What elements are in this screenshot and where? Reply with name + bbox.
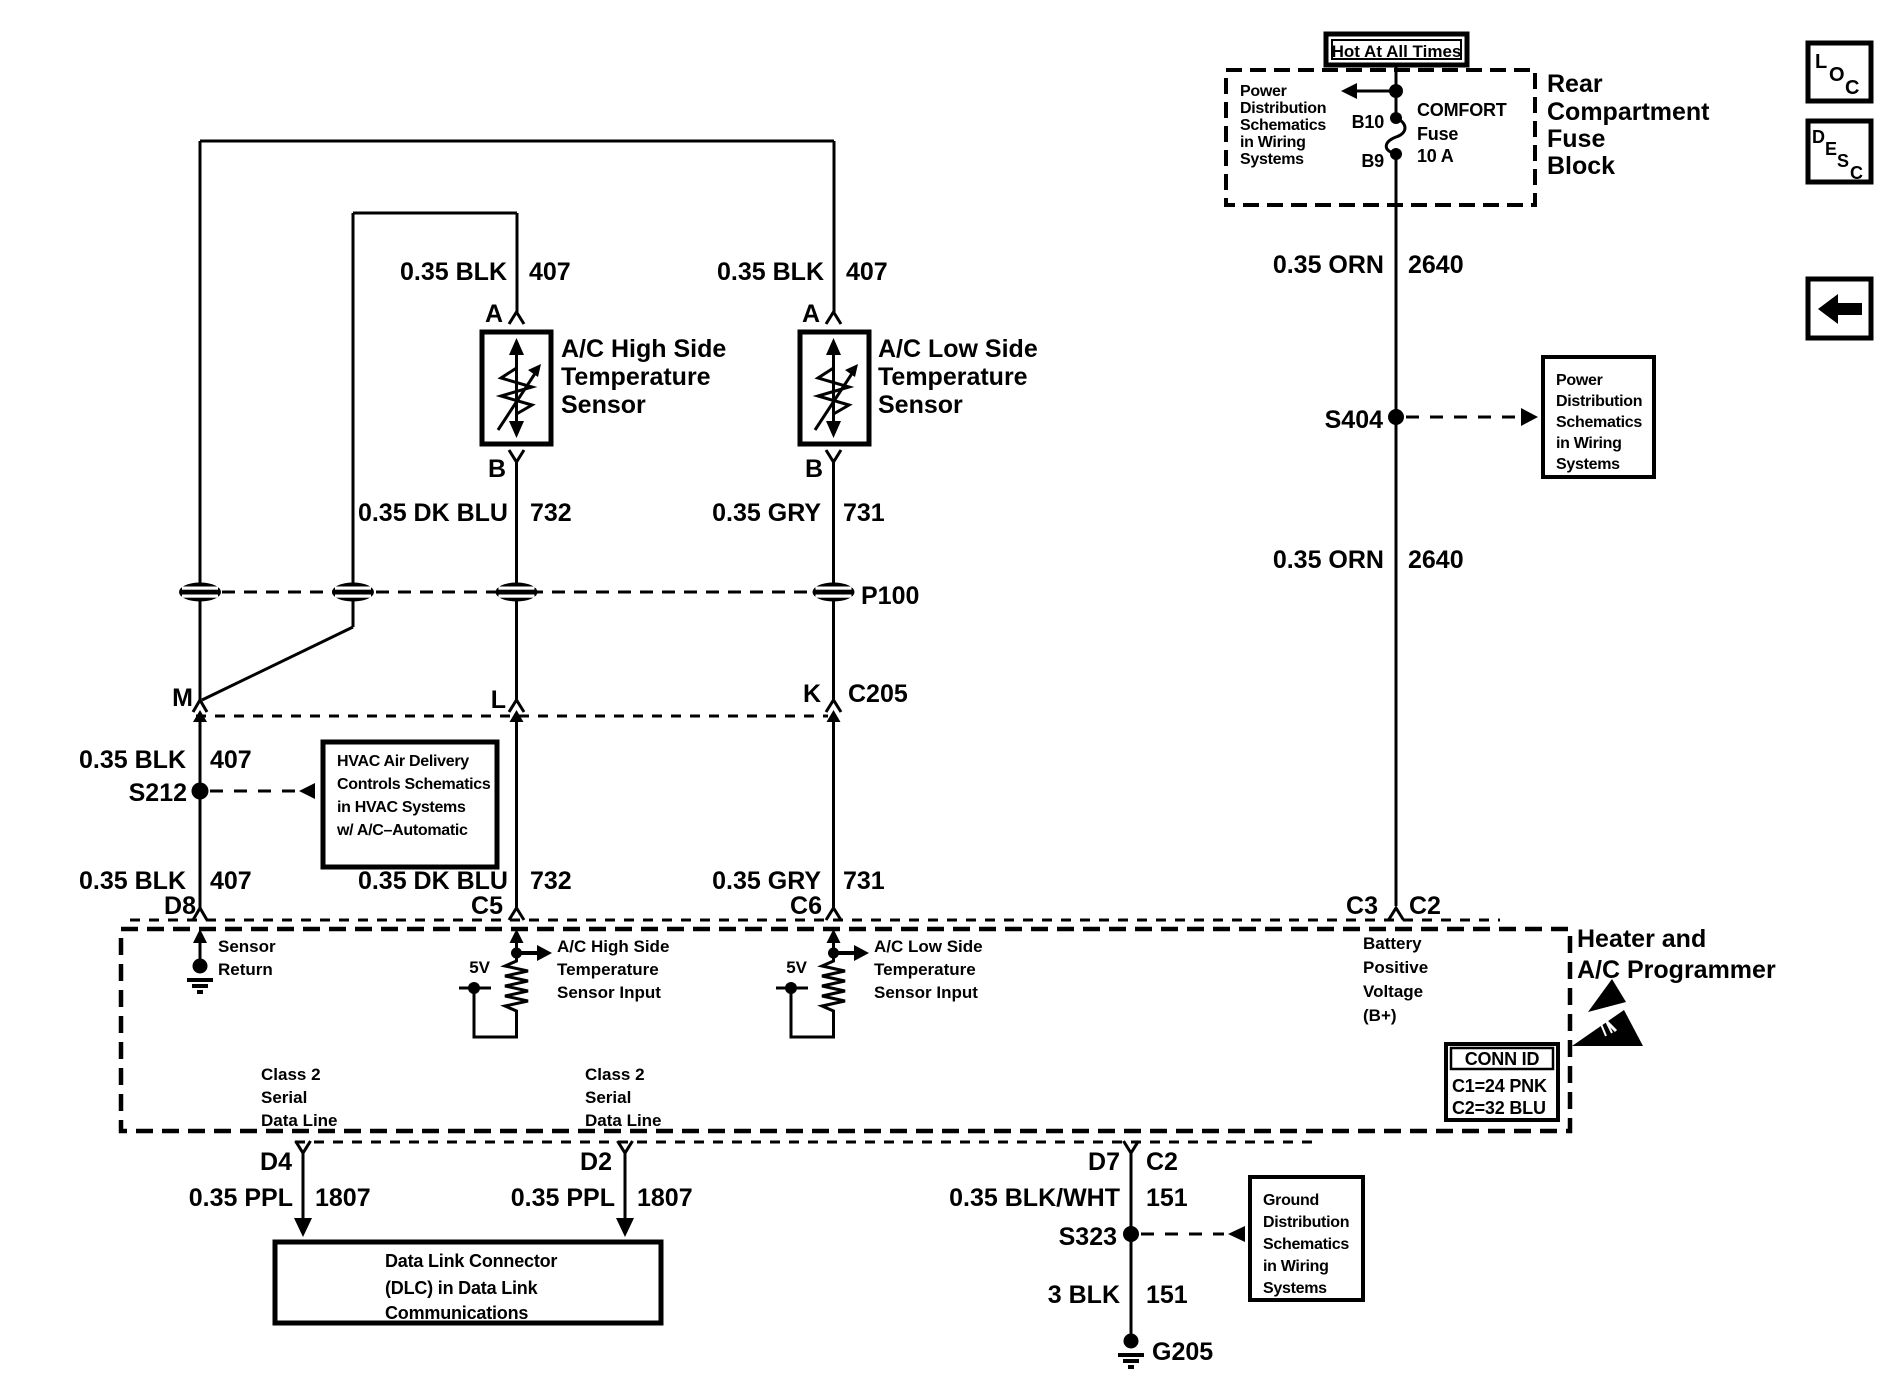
svg-text:C2: C2 <box>1409 892 1441 920</box>
svg-text:Communications: Communications <box>385 1303 528 1323</box>
svg-text:E: E <box>1825 139 1837 159</box>
svg-text:0.35 BLK: 0.35 BLK <box>79 746 186 774</box>
svg-text:S212: S212 <box>129 779 187 807</box>
svg-text:0.35 GRY: 0.35 GRY <box>712 867 821 895</box>
hot at all times banner <box>1326 34 1467 65</box>
icon box back arrow <box>1808 279 1871 338</box>
label: 0.35 DK BLU 732 (above C5) <box>358 867 572 895</box>
svg-text:D4: D4 <box>260 1148 292 1176</box>
svg-text:Controls Schematics: Controls Schematics <box>337 776 491 793</box>
pin D4 <box>260 1141 310 1176</box>
label: 0.35 BLK 407 (above D8) <box>79 867 252 895</box>
label: 0.35 ORN 2640 (lower) <box>1273 546 1464 574</box>
label: Battery Positive Voltage (B+) <box>1363 934 1428 1025</box>
wire: battery feed from banner into fuse box <box>1395 65 1398 118</box>
svg-text:0.35 PPL: 0.35 PPL <box>189 1184 293 1212</box>
label: A/C High Side Temperature Sensor <box>561 335 726 419</box>
wire: branch horizontal 407 run <box>353 212 517 215</box>
svg-text:S323: S323 <box>1059 1223 1117 1251</box>
svg-text:Sensor: Sensor <box>561 391 646 419</box>
svg-text:B: B <box>805 455 823 483</box>
pin D7 / C2 <box>1088 1141 1178 1176</box>
label: 0.35 BLK 407 (low side) <box>717 258 888 286</box>
reference box: HVAC Air Delivery Controls Schematics <box>323 742 497 867</box>
fuse COMFORT 10 A <box>1386 112 1405 160</box>
svg-text:B: B <box>488 455 506 483</box>
pin L of C205 <box>491 686 524 722</box>
pin D8 <box>164 892 207 920</box>
wire: low side sensor drop <box>833 141 836 312</box>
wire: 0.35 ORN 2640 from fuse B9 to C3 <box>1395 154 1398 700</box>
connector C205 dashed line <box>196 715 828 718</box>
svg-text:C5: C5 <box>471 892 503 920</box>
svg-text:Power: Power <box>1240 83 1287 100</box>
pin M of C205 <box>172 684 207 722</box>
svg-text:Return: Return <box>218 960 273 979</box>
label: Sensor Return <box>218 937 276 979</box>
wire: 0.35 PPL 1807 from D2 <box>616 1153 634 1237</box>
svg-text:0.35 DK BLU: 0.35 DK BLU <box>358 499 508 527</box>
svg-text:Temperature: Temperature <box>874 960 976 979</box>
svg-text:2640: 2640 <box>1408 546 1464 574</box>
svg-text:Voltage: Voltage <box>1363 982 1423 1001</box>
svg-text:in Wiring: in Wiring <box>1240 134 1306 151</box>
svg-text:Data Line: Data Line <box>585 1111 662 1130</box>
svg-text:0.35 ORN: 0.35 ORN <box>1273 251 1384 279</box>
svg-text:0.35 PPL: 0.35 PPL <box>511 1184 615 1212</box>
svg-text:(B+): (B+) <box>1363 1006 1397 1025</box>
svg-text:Schematics: Schematics <box>1556 414 1642 431</box>
heater and A/C programmer module box <box>121 929 1570 1131</box>
pins C3 / C2 <box>1346 892 1441 920</box>
dashed arrow from S212 to HVAC box <box>210 783 315 799</box>
label: COMFORT Fuse 10 A <box>1417 100 1507 166</box>
svg-text:A: A <box>485 300 503 328</box>
label: 0.35 BLK 407 (below M) <box>79 746 252 774</box>
svg-text:A: A <box>802 300 820 328</box>
wire: 0.35 GRY 731 drop <box>832 462 835 700</box>
svg-text:Sensor: Sensor <box>878 391 963 419</box>
wire: 0.35 BLK 407 from M to D8 <box>199 714 202 908</box>
svg-text:Schematics: Schematics <box>1240 117 1326 134</box>
pin C5 <box>471 892 524 920</box>
pin D2 <box>580 1141 632 1176</box>
svg-text:Systems: Systems <box>1240 151 1304 168</box>
svg-text:0.35 BLK: 0.35 BLK <box>79 867 186 895</box>
low side 5V pull-up resistor <box>776 957 845 1037</box>
svg-text:A/C High Side: A/C High Side <box>557 937 669 956</box>
svg-text:5V: 5V <box>469 958 490 977</box>
svg-text:0.35 BLK/WHT: 0.35 BLK/WHT <box>949 1184 1120 1212</box>
svg-text:Schematics: Schematics <box>1263 1236 1349 1253</box>
svg-text:Class 2: Class 2 <box>585 1065 645 1084</box>
connector line C1/C2 at module top <box>130 919 1500 922</box>
svg-text:407: 407 <box>529 258 571 286</box>
svg-text:B10: B10 <box>1352 112 1385 132</box>
svg-text:Heater and: Heater and <box>1577 925 1706 953</box>
svg-text:C205: C205 <box>848 680 908 708</box>
svg-text:1807: 1807 <box>637 1184 693 1212</box>
label: power distribution schematics (inside fuse box) <box>1240 83 1326 168</box>
svg-text:CONN ID: CONN ID <box>1465 1049 1540 1069</box>
svg-text:C6: C6 <box>790 892 822 920</box>
CONN ID table <box>1446 1044 1558 1120</box>
pin K of C205 <box>803 680 841 722</box>
label: 0.35 BLK 407 (high side) <box>400 258 571 286</box>
wire: 0.35 PPL 1807 from D4 <box>294 1153 312 1237</box>
svg-text:0.35 BLK: 0.35 BLK <box>400 258 507 286</box>
high side 5V pull-up resistor <box>459 957 528 1037</box>
svg-text:Class 2: Class 2 <box>261 1065 321 1084</box>
svg-text:731: 731 <box>843 867 885 895</box>
svg-text:D: D <box>1812 127 1825 147</box>
svg-text:in HVAC Systems: in HVAC Systems <box>337 799 466 816</box>
svg-text:(DLC) in Data Link: (DLC) in Data Link <box>385 1278 539 1298</box>
svg-text:Ground: Ground <box>1263 1192 1319 1209</box>
splice S323 <box>1123 1226 1139 1242</box>
wire: branch vertical 407 run through P100 <box>352 213 355 627</box>
label: Class 2 Serial Data Line (left) <box>261 1065 338 1130</box>
svg-text:C2=32 BLU: C2=32 BLU <box>1452 1098 1546 1118</box>
svg-text:A/C Programmer: A/C Programmer <box>1577 956 1776 984</box>
svg-text:Temperature: Temperature <box>561 363 711 391</box>
svg-text:Distribution: Distribution <box>1240 100 1326 117</box>
svg-text:HVAC Air Delivery: HVAC Air Delivery <box>337 753 469 770</box>
label: 0.35 ORN 2640 (upper) <box>1273 251 1464 279</box>
svg-text:Battery: Battery <box>1363 934 1422 953</box>
P100 grommet at 731 wire <box>813 583 855 602</box>
label: 0.35 PPL 1807 (D2) <box>511 1184 693 1212</box>
svg-text:732: 732 <box>530 499 572 527</box>
svg-text:Serial: Serial <box>261 1088 307 1107</box>
label: A/C High Side Temperature Sensor Input <box>557 937 669 1002</box>
wire: A/C high side sensor drop <box>516 213 519 312</box>
svg-text:Data Link Connector: Data Link Connector <box>385 1251 557 1271</box>
pin A (low side) <box>802 300 841 328</box>
svg-text:S: S <box>1837 151 1849 171</box>
ground G205 <box>1118 1334 1144 1368</box>
svg-text:407: 407 <box>210 867 252 895</box>
svg-text:Systems: Systems <box>1556 456 1620 473</box>
svg-text:in Wiring: in Wiring <box>1263 1258 1329 1275</box>
label: 0.35 BLK/WHT 151 <box>949 1184 1188 1212</box>
svg-text:Sensor Input: Sensor Input <box>874 983 978 1002</box>
svg-text:Fuse: Fuse <box>1417 124 1458 144</box>
rear compartment fuse block (dashed box) <box>1226 70 1535 205</box>
icon box LOC <box>1808 43 1871 101</box>
svg-text:Fuse: Fuse <box>1547 125 1605 153</box>
wire: left vertical 407 run to P100 <box>199 141 202 700</box>
svg-text:w/ A/C–Automatic: w/ A/C–Automatic <box>336 822 468 839</box>
svg-text:A/C High Side: A/C High Side <box>561 335 726 363</box>
pin C6 <box>790 892 841 920</box>
svg-text:0.35 BLK: 0.35 BLK <box>717 258 824 286</box>
svg-text:Rear: Rear <box>1547 70 1603 98</box>
wire: diagonal into pin M <box>202 627 353 700</box>
svg-text:C3: C3 <box>1346 892 1378 920</box>
svg-text:C: C <box>1850 163 1863 183</box>
wire: 0.35 DK BLU 732 drop <box>515 462 518 700</box>
label: 0.35 GRY 731 <box>712 499 885 527</box>
label: Class 2 Serial Data Line (right) <box>585 1065 662 1130</box>
svg-text:Block: Block <box>1547 152 1615 180</box>
svg-text:B9: B9 <box>1361 151 1384 171</box>
svg-text:M: M <box>172 684 193 712</box>
svg-text:Temperature: Temperature <box>557 960 659 979</box>
wire: 0.35 BLK/WHT 151 from D7 <box>1130 1153 1133 1341</box>
P100 pass-through dashed line <box>200 591 852 594</box>
svg-text:S404: S404 <box>1325 406 1383 434</box>
svg-text:0.35 DK BLU: 0.35 DK BLU <box>358 867 508 895</box>
svg-text:C: C <box>1845 77 1859 99</box>
pin A (high side) <box>485 300 524 328</box>
svg-text:K: K <box>803 680 821 708</box>
svg-text:L: L <box>1815 51 1827 73</box>
splice S212 <box>192 783 209 800</box>
label: 0.35 GRY 731 (above C6) <box>712 867 885 895</box>
dashed arrow from S404 to power distribution box <box>1406 408 1538 426</box>
svg-text:Distribution: Distribution <box>1263 1214 1349 1231</box>
label: 3 BLK 151 <box>1048 1281 1188 1309</box>
label: 0.35 DK BLU 732 <box>358 499 572 527</box>
svg-text:Data Line: Data Line <box>261 1111 338 1130</box>
dashed arrow from S323 to ground distribution box <box>1141 1226 1245 1242</box>
arrow to power distribution schematics <box>1341 83 1396 99</box>
label: Heater and A/C Programmer <box>1577 925 1776 984</box>
connector line at module bottom <box>295 1141 1315 1144</box>
svg-text:0.35 ORN: 0.35 ORN <box>1273 546 1384 574</box>
ESD sensitive symbol <box>1572 979 1643 1046</box>
pin B (low side) <box>805 450 841 483</box>
svg-text:Positive: Positive <box>1363 958 1428 977</box>
P100 grommet at 407 wire <box>179 583 221 602</box>
svg-text:Temperature: Temperature <box>878 363 1028 391</box>
low side input node and signal arrow <box>828 945 869 961</box>
svg-text:3 BLK: 3 BLK <box>1048 1281 1120 1309</box>
svg-text:Hot At All Times: Hot At All Times <box>1332 42 1462 61</box>
svg-text:407: 407 <box>210 746 252 774</box>
wire: top horizontal 407 run <box>200 140 834 143</box>
svg-text:Serial: Serial <box>585 1088 631 1107</box>
label: Rear Compartment Fuse Block <box>1547 70 1710 180</box>
P100 grommet at branch 407 wire <box>332 583 374 602</box>
junction node at fuse box feed <box>1389 84 1403 98</box>
pin B (high side) <box>488 450 524 483</box>
reference box: Ground Distribution Schematics in Wiring Systems <box>1250 1177 1363 1300</box>
svg-text:1807: 1807 <box>315 1184 371 1212</box>
A/C low side temperature sensor (thermistor) <box>800 332 869 444</box>
label: A/C Low Side Temperature Sensor Input <box>874 937 983 1002</box>
P100 grommet at 732 wire <box>496 583 538 602</box>
high side input pin arrow <box>510 929 524 953</box>
label: A/C Low Side Temperature Sensor <box>878 335 1038 419</box>
svg-text:P100: P100 <box>861 582 919 610</box>
svg-text:Power: Power <box>1556 372 1603 389</box>
svg-text:151: 151 <box>1146 1281 1188 1309</box>
svg-text:in Wiring: in Wiring <box>1556 435 1622 452</box>
svg-text:Distribution: Distribution <box>1556 393 1642 410</box>
svg-text:Sensor: Sensor <box>218 937 276 956</box>
svg-text:O: O <box>1829 64 1845 86</box>
svg-text:Sensor Input: Sensor Input <box>557 983 661 1002</box>
splice S404 <box>1388 409 1404 425</box>
svg-text:732: 732 <box>530 867 572 895</box>
svg-text:D8: D8 <box>164 892 196 920</box>
svg-text:G205: G205 <box>1152 1338 1213 1366</box>
svg-text:D7: D7 <box>1088 1148 1120 1176</box>
svg-text:151: 151 <box>1146 1184 1188 1212</box>
svg-text:5V: 5V <box>786 958 807 977</box>
sensor return internal ground <box>187 959 213 993</box>
wire: 0.35 DK BLU 732 from L to C5 <box>515 714 518 908</box>
svg-text:10 A: 10 A <box>1417 146 1454 166</box>
svg-text:Systems: Systems <box>1263 1280 1327 1297</box>
icon box DESC <box>1808 121 1871 183</box>
high side input node and signal arrow <box>511 945 552 961</box>
svg-text:2640: 2640 <box>1408 251 1464 279</box>
reference box: Data Link Connector (DLC) <box>275 1242 661 1323</box>
svg-text:L: L <box>491 686 506 714</box>
A/C high side temperature sensor (thermistor) <box>482 332 551 444</box>
svg-text:407: 407 <box>846 258 888 286</box>
svg-text:C2: C2 <box>1146 1148 1178 1176</box>
svg-text:731: 731 <box>843 499 885 527</box>
label: 0.35 PPL 1807 (D4) <box>189 1184 371 1212</box>
svg-text:COMFORT: COMFORT <box>1417 100 1507 120</box>
low side input pin arrow <box>827 929 841 953</box>
wire: 0.35 GRY 731 from K to C6 <box>832 714 835 908</box>
svg-text:A/C Low Side: A/C Low Side <box>878 335 1038 363</box>
reference box: Power Distribution Schematics in Wiring Systems <box>1543 357 1654 477</box>
svg-text:A/C Low Side: A/C Low Side <box>874 937 983 956</box>
svg-text:0.35 GRY: 0.35 GRY <box>712 499 821 527</box>
svg-text:C1=24 PNK: C1=24 PNK <box>1452 1076 1547 1096</box>
sensor return pin arrow <box>193 929 207 960</box>
svg-text:D2: D2 <box>580 1148 612 1176</box>
svg-text:Compartment: Compartment <box>1547 98 1710 126</box>
